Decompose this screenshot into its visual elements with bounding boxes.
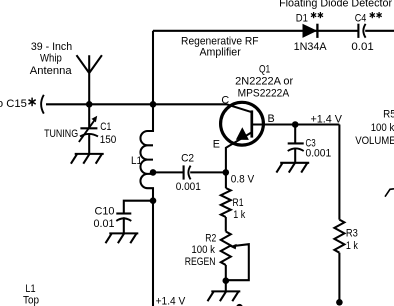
svg-text:100 k: 100 k xyxy=(191,244,215,256)
svg-text:to C15: to C15 xyxy=(0,98,27,110)
svg-text:R2: R2 xyxy=(205,233,216,245)
svg-text:L1: L1 xyxy=(25,283,35,295)
svg-text:R5: R5 xyxy=(383,109,394,121)
svg-text:C4: C4 xyxy=(355,13,367,25)
svg-text:150: 150 xyxy=(100,134,117,146)
svg-text:L1: L1 xyxy=(131,155,142,167)
svg-text:C2: C2 xyxy=(181,152,194,164)
svg-text:D1: D1 xyxy=(296,13,308,25)
svg-text:0.01: 0.01 xyxy=(351,41,373,53)
svg-text:R1: R1 xyxy=(233,197,244,209)
svg-text:0.001: 0.001 xyxy=(306,148,332,160)
svg-text:Antenna: Antenna xyxy=(30,65,72,77)
svg-text:E: E xyxy=(213,139,220,151)
svg-text:0.01: 0.01 xyxy=(94,218,115,230)
svg-text:+1.4 V: +1.4 V xyxy=(156,296,186,306)
svg-text:Top: Top xyxy=(23,295,39,306)
svg-text:1 k: 1 k xyxy=(346,240,358,252)
svg-text:0.001: 0.001 xyxy=(176,181,201,193)
svg-text:C1: C1 xyxy=(100,121,111,133)
svg-text:B: B xyxy=(268,113,275,125)
svg-text:TUNING: TUNING xyxy=(44,128,78,140)
svg-text:100 k: 100 k xyxy=(371,122,394,134)
svg-text:39 - Inch: 39 - Inch xyxy=(31,41,72,53)
svg-text:REGEN: REGEN xyxy=(185,256,216,268)
svg-text:1 k: 1 k xyxy=(233,209,245,221)
svg-text:Floating Diode Detector: Floating Diode Detector xyxy=(279,0,392,9)
svg-text:VOLUME: VOLUME xyxy=(355,135,394,147)
svg-text:0.8 V: 0.8 V xyxy=(231,173,255,185)
svg-text:1N34A: 1N34A xyxy=(294,41,328,53)
svg-text:Regenerative RF: Regenerative RF xyxy=(181,35,259,47)
svg-text:Whip: Whip xyxy=(40,53,62,65)
svg-text:C10: C10 xyxy=(95,205,115,217)
svg-text:Amplifier: Amplifier xyxy=(199,47,241,59)
svg-text:2N2222A or: 2N2222A or xyxy=(235,75,293,87)
svg-text:Q1: Q1 xyxy=(259,63,270,75)
svg-text:MPS2222A: MPS2222A xyxy=(238,88,290,100)
svg-text:+1.4 V: +1.4 V xyxy=(311,113,343,125)
svg-text:R3: R3 xyxy=(346,228,358,240)
svg-text:C: C xyxy=(221,95,229,107)
